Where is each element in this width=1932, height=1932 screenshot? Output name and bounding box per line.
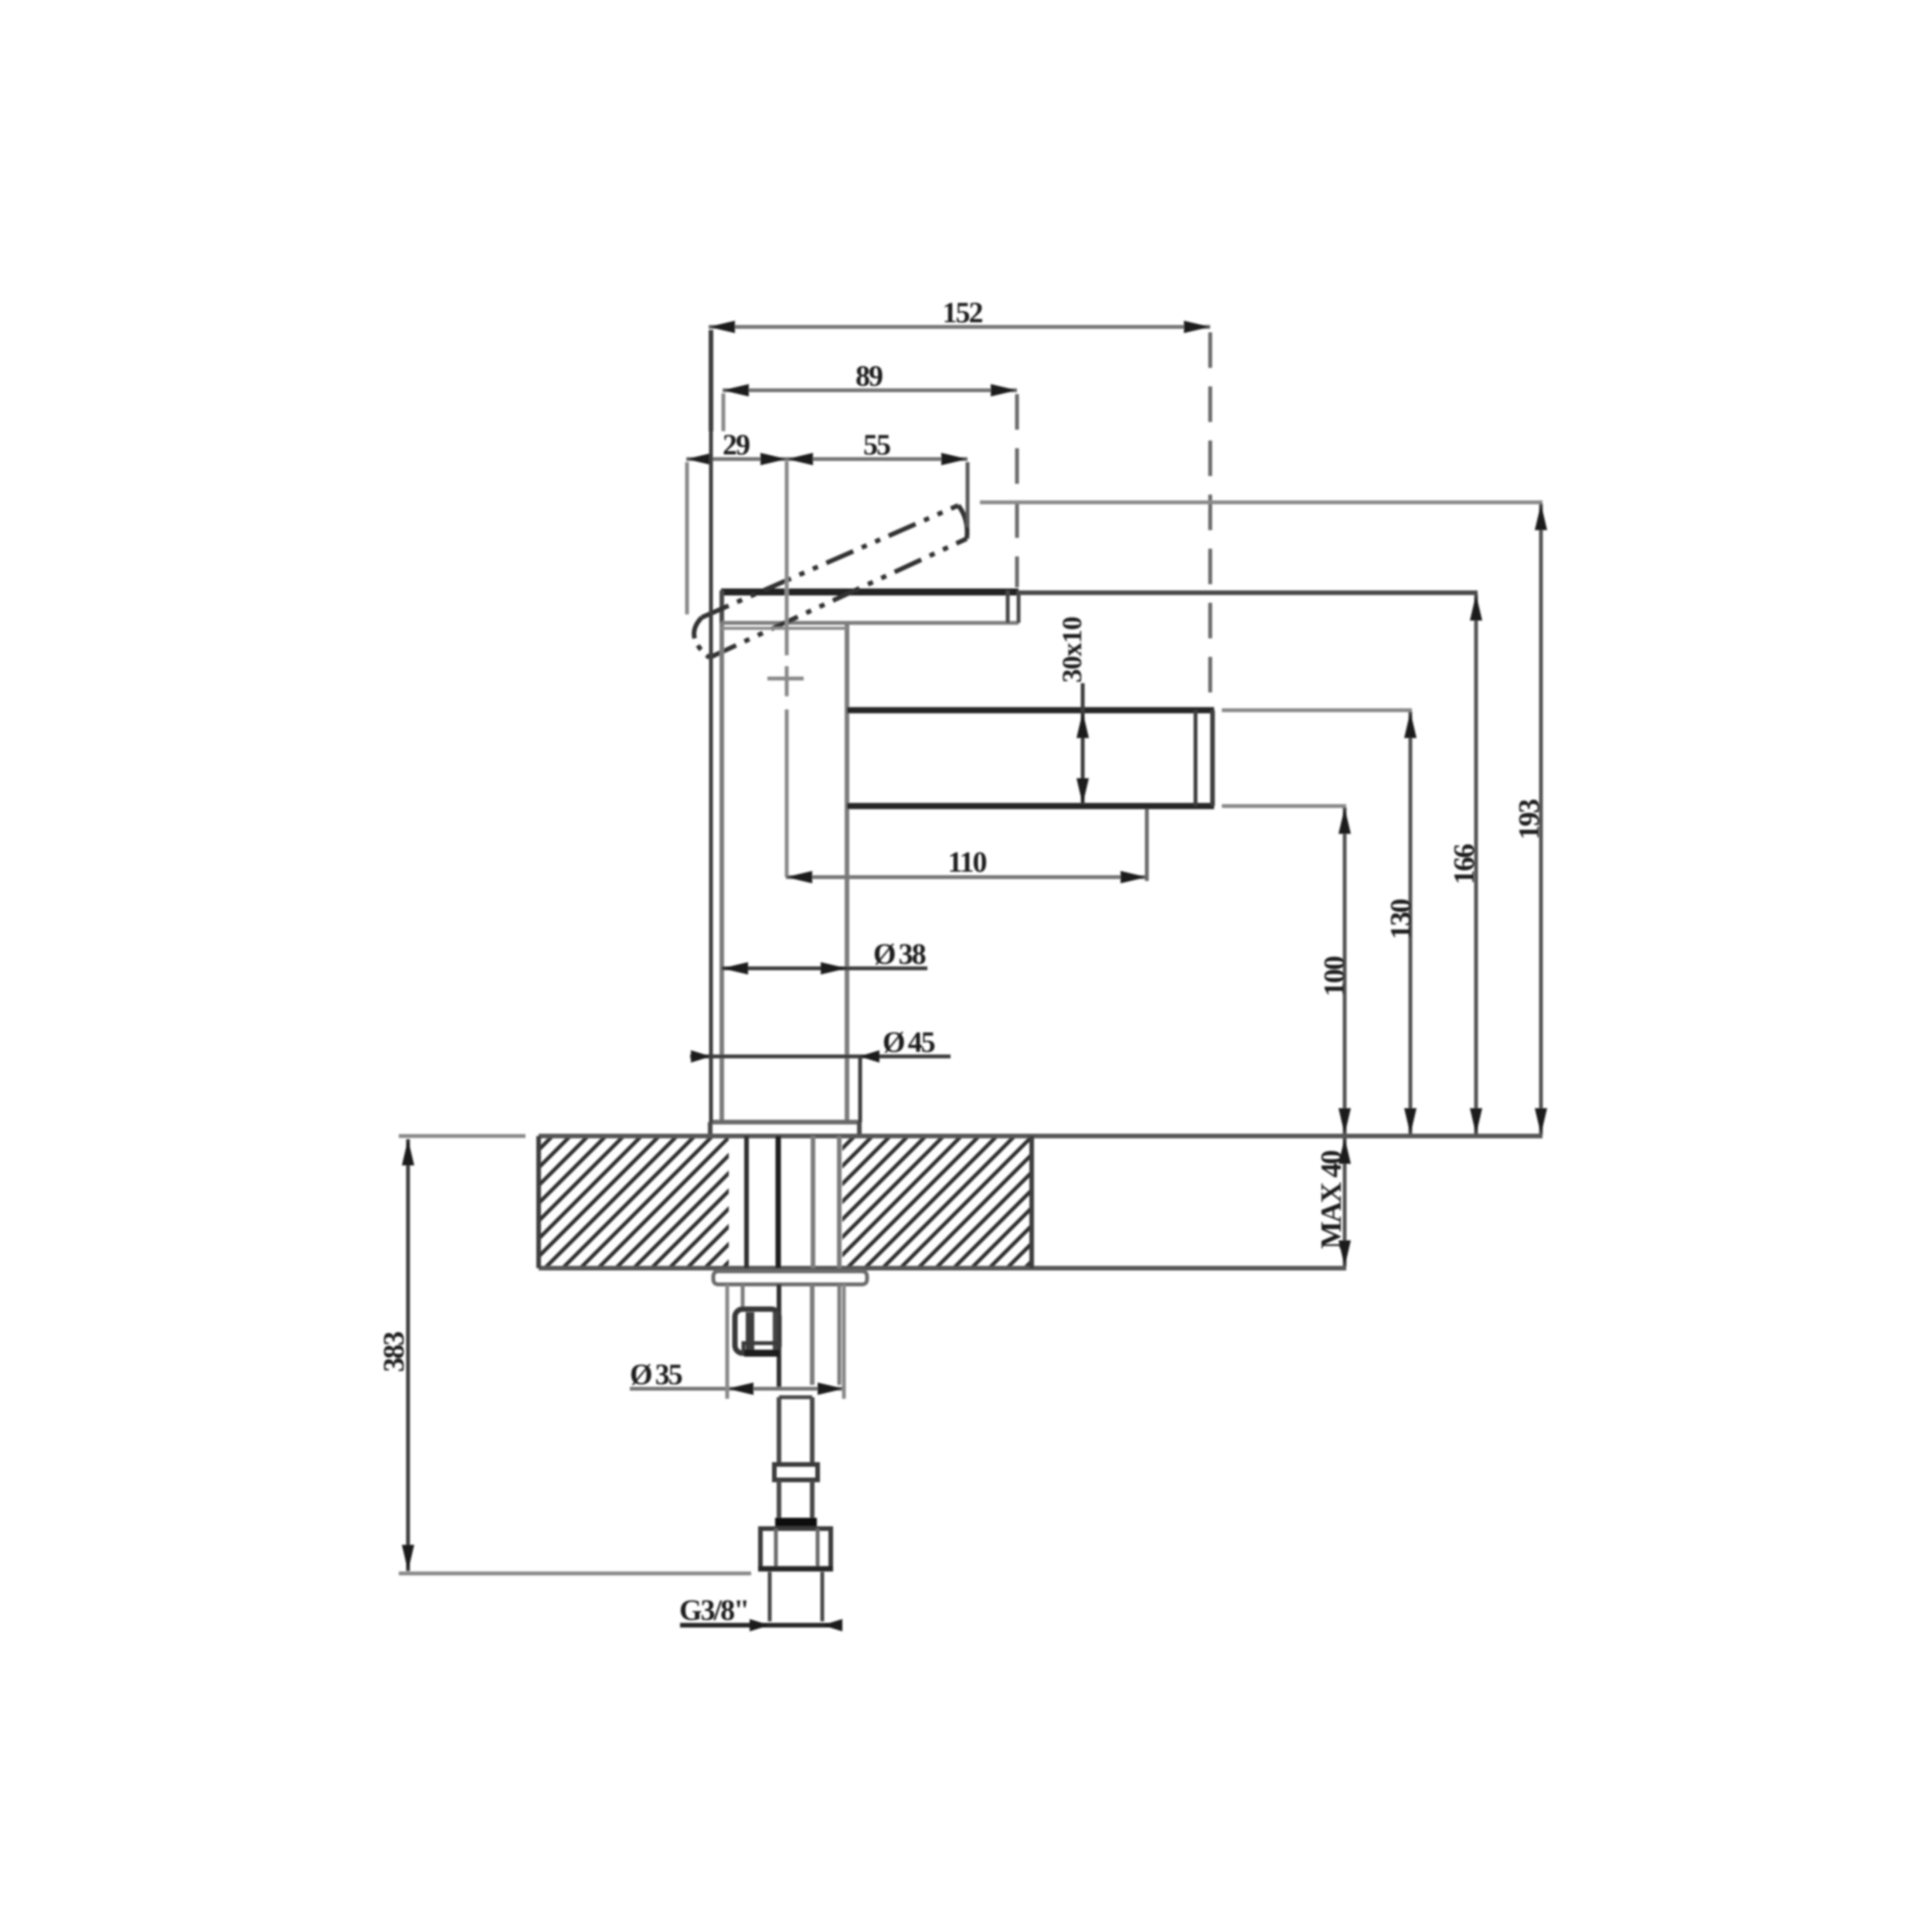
supply pipe (779, 1397, 812, 1464)
svg-text:110: 110 (948, 846, 987, 879)
pipe coupling ring (774, 1464, 818, 1480)
svg-text:383: 383 (378, 1332, 410, 1372)
svg-text:100: 100 (1318, 957, 1351, 997)
dimension G3/8 thread (679, 1594, 842, 1631)
cartridge centerline (785, 461, 789, 877)
dimension diameter 38 (722, 938, 927, 975)
dimension 89 (723, 360, 1017, 587)
dimension 55 (787, 429, 968, 527)
svg-text:Ø38: Ø38 (873, 938, 926, 971)
countertop hatched section right (842, 1136, 1032, 1268)
dimension 166 (1019, 593, 1482, 1134)
svg-text:130: 130 (1385, 900, 1417, 940)
pipe tail below nut (770, 1572, 822, 1621)
dimension 383 (378, 1136, 751, 1573)
dimension 110 (786, 809, 1147, 883)
cartridge center cross (767, 677, 804, 681)
threaded shank through countertop (747, 1136, 839, 1268)
o-ring band (775, 1518, 817, 1529)
countertop outline (539, 1136, 1543, 1268)
dimension 29 (686, 429, 787, 614)
base flange (710, 1122, 859, 1136)
svg-text:Ø35: Ø35 (630, 1359, 682, 1391)
dimension MAX 40 (1315, 1138, 1351, 1267)
mixer body column (721, 623, 847, 1122)
svg-text:MAX 40: MAX 40 (1315, 1151, 1348, 1249)
svg-text:193: 193 (1513, 800, 1546, 840)
pipe lower section (779, 1480, 812, 1519)
svg-text:29: 29 (723, 429, 750, 461)
svg-text:55: 55 (863, 429, 890, 461)
side hex plug (735, 1309, 780, 1354)
svg-text:89: 89 (855, 360, 883, 393)
spout (847, 710, 1214, 806)
dimension 130 (1222, 710, 1417, 1134)
dimension 30x10 (1056, 617, 1089, 805)
svg-text:G3/8": G3/8" (679, 1594, 748, 1627)
lever handle (horizontal position) (721, 590, 1019, 624)
dimension 193 (980, 502, 1547, 1134)
compression nut G3/8 (758, 1529, 833, 1569)
svg-text:Ø45: Ø45 (883, 1026, 935, 1059)
dimension 152 (709, 297, 1210, 700)
svg-text:166: 166 (1448, 845, 1481, 885)
dimension 100 (1222, 806, 1351, 1134)
svg-text:30x10: 30x10 (1056, 617, 1087, 683)
washer and locknut under counter (713, 1271, 867, 1284)
dimension diameter 45 (690, 330, 951, 1122)
shank below washer (743, 1284, 839, 1389)
countertop hatched section left (539, 1136, 729, 1268)
lever handle raised (phantom position) (694, 505, 967, 658)
dimension diameter 35 (630, 1284, 845, 1399)
svg-text:152: 152 (943, 297, 983, 329)
